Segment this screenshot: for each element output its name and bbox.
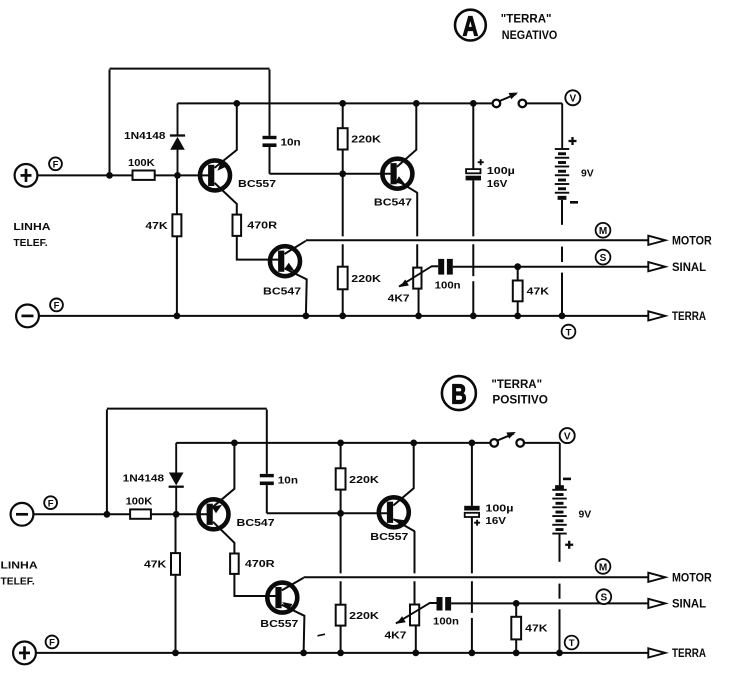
transistor Q2 BC547 (A) [382,159,412,189]
wire segment to 220K lower (B) [340,513,342,573]
wire second rail (A) [178,102,493,104]
svg-text:M: M [599,562,607,573]
node Q2 collector on rail (A) [413,100,420,107]
resistor 47K input (B) [171,553,180,575]
potentiometer 4K7 (A) [413,268,421,289]
svg-text:10n: 10n [278,476,298,487]
wire TERRA rail (A) [39,315,648,317]
svg-text:1N4148: 1N4148 [124,131,166,142]
wire switch to corner (A) [526,102,562,104]
svg-text:V: V [569,94,576,105]
transistor Q2 BC557 (B) [379,497,409,527]
wire 220K lower to terra (A) [342,289,344,316]
capacitor 10n (A) [263,136,277,139]
resistor 100K (A) [133,171,155,180]
svg-text:470R: 470R [245,559,275,570]
wire SINAL line (B) [451,602,648,604]
wire base junction down to 47K (B) [175,514,177,553]
terminal V circled (A) [565,90,580,105]
switch S1 (A) [493,100,501,108]
label battery - (A) [570,201,578,204]
svg-text:100K: 100K [126,497,153,508]
capacitor 100u 16V (B) [471,443,473,506]
terminal T circled (B) [565,636,579,650]
svg-text:F: F [53,159,59,170]
svg-text:S: S [600,593,607,604]
terminal - line input (B) [11,503,34,526]
svg-text:47K: 47K [145,221,167,232]
wire 470R to Q3 base (B) [234,574,276,596]
wire 10n bottom to segment (B) [266,485,268,513]
terminal F upper (B) [44,496,57,509]
wire segment 10n/220K to Q2 base (A) [270,173,393,175]
svg-text:220K: 220K [349,611,379,622]
svg-text:4K7: 4K7 [388,294,411,305]
svg-text:100µ: 100µ [485,503,513,514]
terminal S circled (A) [596,250,611,265]
transistor Q3 BC547 (A) [270,246,300,276]
terminal + line input (A) [15,164,38,187]
output arrow TERRA (A) [648,311,665,320]
svg-text:SINAL: SINAL [672,598,706,611]
wire Q2 emitter to 4K7 (A) [416,192,418,236]
resistor 470R (A) [233,215,242,236]
diode 1N4148 (A) [177,103,179,135]
output arrow SINAL (B) [648,599,665,608]
transistor Q1 BC557 (A) [200,160,230,190]
capacitor 100n (A) [438,259,444,275]
label battery - (B) [563,478,571,481]
svg-text:470R: 470R [247,220,277,231]
svg-text:16V: 16V [487,179,508,190]
svg-text:"TERRA": "TERRA" [491,377,542,391]
terminal F lower (B) [46,636,59,649]
battery 9V (B) [559,443,561,490]
wire wiper to 100n (B) [429,602,436,604]
resistor 220K lower (A) [338,267,348,290]
terminal F upper (A) [49,157,62,170]
wiper arrow 4K7 (A) [399,266,432,287]
capacitor 10n (B) [260,474,274,477]
node Q3 emitter on terra (B) [300,650,307,657]
terminal T circled (A) [562,325,576,339]
svg-text:BC557: BC557 [238,179,276,190]
svg-text:BC547: BC547 [237,518,275,529]
wire TERRA rail (B) [36,652,648,654]
svg-text:100n: 100n [433,617,459,628]
terminal M circled (B) [596,559,611,574]
svg-text:10n: 10n [281,137,301,148]
wire 47K to terra rail (A) [176,236,178,316]
wire 100u to terra (B) [471,517,473,573]
wire rail to 220K (B) [340,443,342,468]
svg-text:NEGATIVO: NEGATIVO [502,28,558,42]
svg-text:MOTOR: MOTOR [672,572,712,585]
svg-text:100µ: 100µ [487,166,515,177]
node 100u top on rail (B) [469,440,476,447]
wire 220K to segment (A) [342,150,344,174]
svg-text:1N4148: 1N4148 [123,474,165,485]
output arrow TERRA (B) [648,648,665,657]
svg-text:LINHA: LINHA [1,561,38,572]
wire 470R to Q3 base (A) [237,236,279,260]
wire battery to terra (B) [559,534,561,562]
wire 220K lower to terra (B) [340,626,342,653]
svg-text:M: M [599,226,607,237]
battery 9V (A) [561,103,563,149]
resistor 47K input (A) [172,214,181,236]
terminal S circled (B) [596,589,611,604]
transistor Q3 BC557 (B) [267,583,297,613]
terminal V circled (B) [560,428,575,443]
node Q3 emitter on terra (A) [303,313,310,320]
wire rail to 220K (A) [342,103,344,128]
wire 4K7 to terra (A) [418,289,420,316]
wire 100u to terra (A) [472,180,474,236]
diode 1N4148 (B) [175,443,177,474]
wire 47K output to terra (A) [517,301,519,316]
title circle B (B) [442,376,476,410]
svg-text:220K: 220K [351,274,381,285]
svg-text:47K: 47K [525,624,547,635]
switch S1 (B) [490,439,498,447]
wire top-rail drop to 10n (B) [266,410,268,474]
svg-text:220K: 220K [351,135,381,146]
title circle A (A) [455,10,486,41]
resistor 470R (B) [230,554,239,574]
svg-text:"TERRA": "TERRA" [501,12,552,26]
svg-text:TELEF.: TELEF. [1,577,35,588]
svg-text:B: B [451,378,467,409]
svg-text:220K: 220K [349,475,379,486]
svg-text:TERRA: TERRA [672,647,706,660]
terminal F lower (A) [50,299,63,312]
wire second rail (B) [176,442,490,444]
node Q2 collector on rail (B) [410,440,417,447]
resistor 47K output (B) [515,603,517,616]
wire base junction down to 47K (A) [176,175,178,214]
svg-text:4K7: 4K7 [385,630,408,641]
svg-text:F: F [49,638,55,649]
node 220K top on rail (B) [337,440,344,447]
wire 100K to diode junction and Q base (A) [155,174,210,176]
svg-text:TERRA: TERRA [672,310,706,323]
wire segment 10n/220K to Q2 base (B) [267,512,389,514]
wire wiper to 100n (A) [432,265,439,267]
wire 4K7 to terra (B) [415,625,417,653]
output arrow MOTOR (A) [648,236,665,245]
label battery + (A) [569,140,577,142]
svg-text:TELEF.: TELEF. [13,238,47,249]
svg-text:9V: 9V [579,509,592,520]
node 220K bottom junction (B) [337,510,344,517]
output arrow SINAL (A) [648,262,665,271]
svg-text:100K: 100K [128,158,155,169]
node Q1 emitter on rail (A) [233,100,240,107]
node 100u top on rail (A) [470,100,477,107]
svg-text:T: T [566,327,572,338]
capacitor 100n (B) [437,597,443,611]
svg-text:BC547: BC547 [263,286,301,297]
svg-text:S: S [600,253,607,264]
terminal - line input (A) [16,305,39,328]
node 220K top on rail (A) [339,100,346,107]
svg-text:47K: 47K [144,559,166,570]
capacitor 100u 16V (A) [472,103,474,169]
resistor 220K lower (B) [336,605,346,626]
svg-text:16V: 16V [485,516,506,527]
resistor 100K (B) [130,509,151,518]
resistor 220K upper (A) [338,128,348,149]
transistor Q1 BC547 (B) [199,499,229,529]
potentiometer 4K7 (B) [410,605,419,626]
svg-text:POSITIVO: POSITIVO [492,392,548,406]
resistor 220K upper (B) [336,468,346,489]
svg-text:9V: 9V [581,169,594,180]
resistor 47K output (A) [517,267,519,281]
wire Q2 emitter to 4K7 (B) [414,531,416,574]
svg-text:F: F [48,498,54,509]
node Q1 emitter on rail (B) [231,440,238,447]
wire 47K to terra rail (B) [175,575,177,653]
svg-text:A: A [463,10,479,41]
terminal M circled (A) [596,223,611,238]
svg-text:V: V [564,432,571,443]
wire input to 100K (A) [37,174,132,176]
svg-text:BC557: BC557 [370,532,408,543]
label battery + (B) [565,544,573,546]
svg-text:LINHA: LINHA [13,222,50,233]
node 220K bottom junction (A) [339,170,346,177]
wire 220K to segment (B) [340,490,342,514]
wire top rail (B) [107,408,267,410]
wiper arrow 4K7 (B) [396,603,430,624]
wire left vertical to top rail (A) [109,70,111,176]
output arrow MOTOR (B) [648,573,665,582]
svg-text:BC557: BC557 [260,619,298,630]
terminal + line input (B) [13,642,36,665]
wire left vertical to top rail (B) [106,410,108,515]
svg-text:BC547: BC547 [374,198,412,209]
wire top-rail drop to 10n (A) [269,70,271,136]
wire input to 100K (B) [33,513,130,515]
wire SINAL line (A) [453,266,649,268]
svg-text:T: T [569,638,575,649]
node 47K top on sinal (B) [513,600,520,607]
svg-text:MOTOR: MOTOR [672,235,712,248]
node junction left vertical (B) [104,511,111,518]
node junction left vertical (A) [106,172,113,179]
node diode junction (B) [173,511,180,518]
wire 100K to diode junction and Q base (B) [151,513,208,515]
wire top rail (A) [110,68,270,70]
svg-text:47K: 47K [527,287,549,298]
node 47K top on sinal (A) [514,263,521,270]
svg-text:F: F [54,301,60,312]
wire 47K output to terra (B) [515,639,517,653]
stray mark (B) [318,634,326,636]
node diode junction (A) [174,172,181,179]
svg-text:100n: 100n [435,281,461,292]
wire 10n bottom to segment (A) [269,147,271,174]
wire MOTOR line (B) [304,576,649,578]
wire switch to corner (B) [524,442,560,444]
wire battery to terra (A) [561,200,563,225]
wire segment to 220K lower (A) [342,174,344,237]
wire MOTOR line (A) [306,239,648,241]
svg-text:SINAL: SINAL [672,261,706,274]
